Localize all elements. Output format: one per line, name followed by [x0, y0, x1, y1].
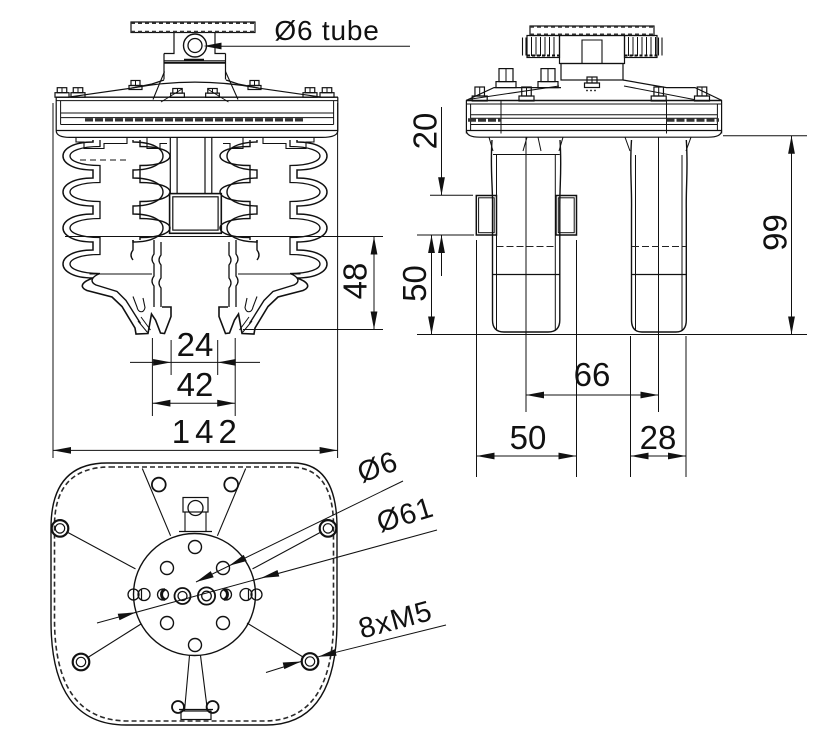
front view left claw [82, 278, 171, 334]
dimension 50 bottom extension lines [476, 240, 478, 477]
side view left leg mounts [489, 137, 563, 151]
svg-text:48: 48 [337, 263, 374, 300]
bottom view bottom pair hole left [172, 701, 184, 713]
bottom view spoke top-right [217, 469, 245, 536]
front view right bellows outer wall [297, 140, 327, 278]
bottom view corner hole top-left [52, 520, 69, 537]
bottom view ring holes [189, 541, 202, 554]
bottom view spoke from BR corner hole [247, 623, 303, 657]
bottom view bottom pair hole right [207, 701, 219, 713]
side view left leg center line [525, 137, 527, 332]
bottom view central circle [134, 534, 256, 656]
front view dome outline [68, 80, 164, 97]
svg-text:20: 20 [407, 113, 444, 150]
svg-text:50: 50 [396, 265, 433, 302]
front view tube hole circle [184, 34, 207, 57]
side view right knurled nut [625, 36, 658, 58]
svg-text:28: 28 [640, 419, 677, 456]
side view left nut end plates [522, 38, 524, 56]
front view flange band [56, 96, 338, 98]
side view fitting center block [560, 36, 625, 64]
front view bellows mounts under flange [76, 137, 127, 148]
svg-text:142: 142 [172, 413, 242, 450]
side view flange hatch strips [468, 118, 501, 121]
bottom view corner hole bottom-left [73, 654, 90, 671]
side view top mounting plate [530, 26, 654, 36]
dimension 48 line [373, 237, 375, 330]
dimension 28 line [631, 455, 687, 457]
bottom view plate inner contour [55, 467, 334, 721]
bottom view spoke from TR corner hole [253, 532, 322, 569]
bottom view bottom wedge [185, 656, 190, 712]
svg-text:Ø6 tube: Ø6 tube [274, 15, 379, 46]
side view left knurled nut [527, 36, 560, 58]
bottom view slot circle right [240, 589, 252, 601]
front view right bellows inner wall [227, 140, 257, 242]
bottom view top tube tab [183, 498, 208, 513]
side view left leg feature lines [493, 154, 560, 156]
bottom view spoke top-left [142, 469, 170, 536]
bottom view corner hole top-right [320, 520, 337, 537]
dimension 20 extension lines [430, 194, 473, 196]
svg-text:42: 42 [177, 366, 214, 403]
dimension 28 extension lines [630, 336, 632, 477]
side view bottom extension line [417, 334, 807, 336]
dimension 99 extension line [723, 135, 807, 137]
dimension 50 vertical line [431, 235, 433, 335]
front view center column tube [169, 137, 171, 193]
dimension 42 line [152, 402, 235, 404]
front view bolts on cap [55, 93, 69, 98]
side view flange band [466, 100, 722, 102]
label Ø6 tube leader arrow [204, 43, 222, 50]
dimension 48 extension lines [65, 236, 383, 238]
side view slope bolts [472, 96, 487, 101]
front view left bellows outer wall [63, 140, 93, 278]
dimension 99 line [791, 136, 793, 335]
dimension 142 line [53, 449, 338, 451]
front view upper block [164, 54, 226, 80]
bottom view top pair hole right [224, 478, 238, 492]
dimension 20 line and arrows [441, 107, 443, 195]
bottom view slot half-moon left [158, 589, 169, 600]
bottom view plate outline [51, 463, 337, 725]
dimension 24 line [130, 361, 260, 363]
side view left leg [491, 140, 560, 332]
bottom view top pair hole left [152, 478, 166, 492]
bottom view slot circle left [138, 589, 150, 601]
side view fitting sub block [561, 64, 623, 81]
bottom view slot half-moon right [221, 589, 232, 600]
svg-text:66: 66 [574, 356, 611, 393]
bottom view spoke from TL corner hole [67, 532, 136, 569]
svg-text:99: 99 [757, 214, 794, 251]
side view right nut end plates [658, 38, 660, 56]
bottom view hub right [198, 587, 215, 604]
bottom view slot edge bump right [251, 589, 262, 600]
dimension 66 extension lines [525, 332, 527, 412]
side view tall bolts [496, 82, 516, 88]
label Ø61 leader [97, 530, 437, 623]
front view right bellows inner wall lower [257, 240, 259, 260]
dimension 142 extension lines [52, 103, 54, 458]
front view left bellows inner wall lower [131, 240, 133, 260]
front view pedestal [153, 72, 238, 100]
side view mini bolt dots [586, 90, 588, 92]
bottom view corner hole bottom-right [302, 653, 319, 670]
side view right leg [631, 140, 687, 332]
side view right leg feature lines [632, 246, 686, 248]
side view left leg left tab [476, 196, 496, 236]
front view bellows dashed line [80, 159, 128, 161]
label Ø6 leader [196, 481, 403, 582]
front view left bellows inner wall [133, 140, 163, 242]
bottom view bottom tab [179, 709, 213, 711]
side view dome outline [466, 88, 561, 101]
side view right leg mounts [625, 137, 691, 151]
svg-text:24: 24 [177, 326, 214, 363]
bottom view slot edge bump left [128, 589, 139, 600]
label 8xM5 leader [318, 625, 446, 657]
dimension 24 extension lines [151, 338, 153, 416]
side view fitting inner tube [582, 40, 602, 64]
side view right leg center line [658, 137, 660, 332]
side view left leg right tab [556, 196, 577, 236]
front view right claw [219, 278, 308, 334]
side view center mini bolt [585, 83, 600, 88]
svg-text:50: 50 [510, 419, 547, 456]
front view bellows mid line [90, 273, 153, 275]
front view flange clamp hatch strip [85, 118, 304, 121]
front view flange bottom lip [56, 131, 338, 138]
dimension 50 bottom line [477, 455, 577, 457]
side view flange bottom lip [466, 131, 721, 138]
bottom view spoke from BL corner hole [87, 624, 141, 658]
front view top mounting plate [131, 22, 255, 33]
front view center square block [170, 194, 222, 234]
dimension 66 line [526, 394, 659, 396]
front view tube bracket [164, 33, 226, 54]
bottom view hub left [175, 588, 191, 604]
